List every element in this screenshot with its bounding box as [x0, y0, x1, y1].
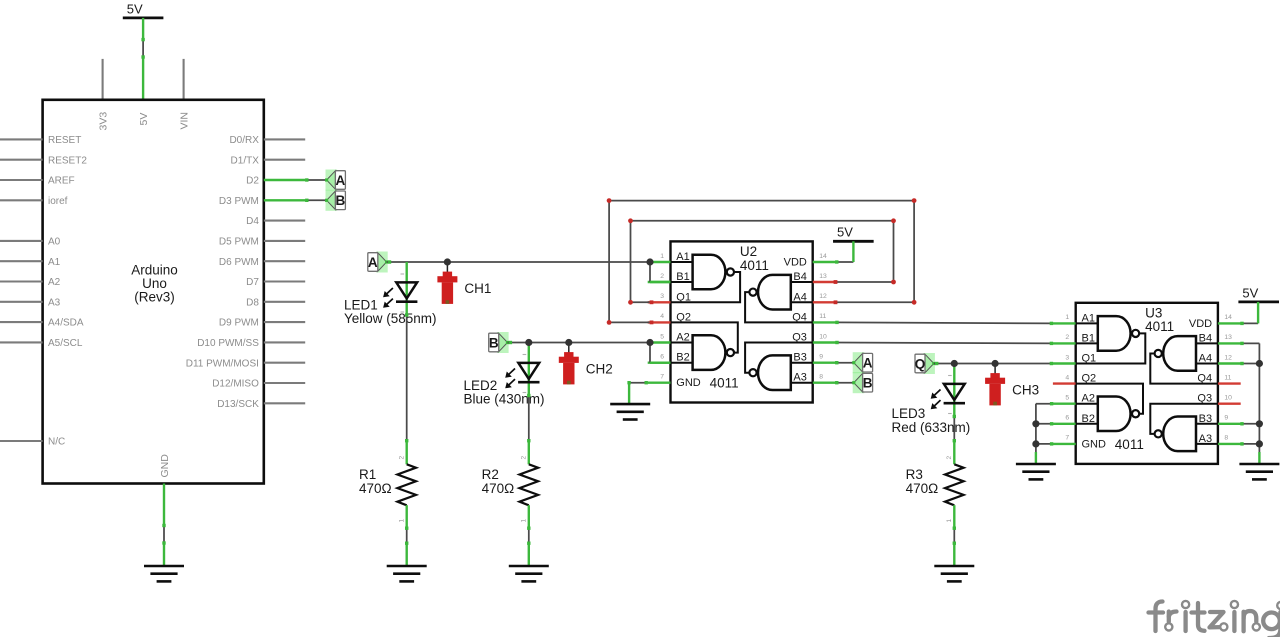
- Arduino pin RESET: [0, 138, 43, 140]
- svg-text:2: 2: [660, 273, 664, 280]
- svg-text:D2: D2: [246, 176, 259, 187]
- Arduino pin D6 PWM: [264, 260, 305, 262]
- Arduino pin D7: [264, 280, 305, 282]
- U3 pin 1 (A1): [1053, 322, 1076, 324]
- ground symbol (R2): [509, 565, 549, 568]
- svg-text:A4/SDA: A4/SDA: [48, 318, 84, 329]
- U3 pin 11 (Q4): [1218, 382, 1241, 384]
- Arduino 5V pin: [142, 58, 144, 99]
- svg-text:12: 12: [819, 293, 827, 300]
- svg-text:12: 12: [1224, 354, 1232, 361]
- svg-text:N/C: N/C: [48, 437, 65, 448]
- svg-text:A5/SCL: A5/SCL: [48, 338, 83, 349]
- U3 pin 5 (A2): [1053, 403, 1076, 405]
- net flag A (to U2 gate 1): [376, 252, 388, 273]
- power symbol 5V (U2 VDD): [833, 240, 874, 243]
- power symbol 5V (U3 VDD): [1238, 300, 1279, 303]
- U2 NAND gate 4 (top right): [791, 281, 813, 283]
- svg-text:4011: 4011: [1145, 319, 1174, 334]
- U3 NAND gate 3 (bottom right): [1196, 423, 1218, 425]
- svg-text:D7: D7: [246, 277, 259, 288]
- wire net B to U2 pin 5: [508, 342, 648, 344]
- Arduino pin D8: [264, 301, 305, 303]
- resistor R3 470: [953, 442, 955, 464]
- svg-text:1: 1: [521, 519, 528, 523]
- U2 pin 4 (Q2): [648, 321, 671, 323]
- wire R3 to ground: [953, 527, 955, 545]
- svg-text:D5 PWM: D5 PWM: [219, 237, 259, 248]
- net flag B (to U2 gate 2): [497, 332, 509, 353]
- svg-text:4011: 4011: [740, 258, 769, 273]
- ground symbol (R1): [387, 565, 427, 568]
- net flag B (from D3): [326, 190, 338, 211]
- U2 GND wire to ground: [629, 382, 648, 384]
- U2 pin 2 (B1): [648, 281, 671, 283]
- U2 pin 1 (A1): [648, 261, 671, 263]
- wire R1 to ground: [406, 527, 408, 545]
- svg-text:3: 3: [1065, 354, 1069, 361]
- svg-text:470Ω: 470Ω: [906, 481, 939, 496]
- svg-text:470Ω: 470Ω: [359, 481, 392, 496]
- U2 pin 3 (Q1): [648, 301, 671, 303]
- U3 pin 13 (B4): [1218, 342, 1241, 344]
- U2 pin 10 (Q3): [813, 341, 836, 343]
- power symbol 5V (Arduino supply): [123, 16, 164, 19]
- svg-text:13: 13: [819, 273, 827, 280]
- svg-text:5V: 5V: [837, 225, 853, 240]
- svg-text:Red (633nm): Red (633nm): [892, 420, 971, 435]
- Arduino pin A5/SCL: [0, 341, 43, 343]
- ground symbol (U2): [610, 403, 650, 406]
- svg-text:D8: D8: [246, 297, 259, 308]
- svg-text:CH2: CH2: [586, 362, 613, 377]
- svg-text:A1: A1: [48, 257, 61, 268]
- U2 pin 11 (Q4): [813, 321, 836, 323]
- wire U3 B4/A4/B3/A3 to ground: [1241, 342, 1260, 344]
- wire U2 VDD to 5V: [836, 261, 854, 263]
- wire LED2 to R2: [528, 394, 530, 442]
- Arduino pin N/C: [0, 440, 43, 442]
- svg-text:D13/SCK: D13/SCK: [217, 399, 259, 410]
- U3 pin 10 (Q3): [1218, 403, 1241, 405]
- LED3 red: [953, 364, 955, 416]
- oscilloscope probe CH2: [568, 343, 570, 353]
- svg-text:R2: R2: [482, 467, 499, 482]
- U2 NAND gate 3 (bottom right): [791, 362, 813, 364]
- svg-text:4011: 4011: [710, 376, 739, 391]
- svg-text:2: 2: [1065, 334, 1069, 341]
- wire 5V supply to Arduino 5V pin: [142, 18, 144, 40]
- Arduino pin D13/SCK: [264, 402, 305, 404]
- svg-text:D10 PWM/SS: D10 PWM/SS: [197, 338, 259, 349]
- svg-text:8: 8: [819, 374, 823, 381]
- svg-text:Q: Q: [915, 356, 926, 371]
- U3 pin 4 (Q2): [1053, 382, 1076, 384]
- svg-text:4: 4: [660, 313, 664, 320]
- Arduino pin A4/SDA: [0, 321, 43, 323]
- U3 NAND gate 2: [1076, 403, 1098, 405]
- svg-text:R1: R1: [359, 467, 376, 482]
- U2 pin 12 (A4): [813, 301, 836, 303]
- svg-text:D1/TX: D1/TX: [231, 155, 260, 166]
- svg-text:D9 PWM: D9 PWM: [219, 318, 259, 329]
- svg-text:D12/MISO: D12/MISO: [212, 379, 259, 390]
- net flag B (from U2 A3): [836, 382, 854, 384]
- U3 pin 14 (VDD): [1218, 322, 1241, 324]
- svg-text:CH1: CH1: [464, 281, 491, 296]
- U3 pin 12 (A4): [1218, 362, 1241, 364]
- svg-text:10: 10: [1224, 395, 1232, 402]
- svg-text:1: 1: [399, 519, 406, 523]
- LED1 yellow: [406, 262, 408, 314]
- fritzing watermark: [1156, 602, 1163, 632]
- svg-text:5V: 5V: [1242, 285, 1258, 300]
- svg-text:9: 9: [1224, 415, 1228, 422]
- svg-text:5: 5: [660, 333, 664, 340]
- Arduino pin D10 PWM/SS: [264, 341, 305, 343]
- svg-text:GND: GND: [159, 454, 171, 478]
- wire U2 Q4 to U3 A1: [836, 322, 1053, 323]
- svg-text:B: B: [489, 335, 499, 350]
- svg-text:4011: 4011: [1115, 437, 1144, 452]
- svg-text:GND: GND: [676, 377, 701, 389]
- wire U3 A2/B2/GND to ground: [1036, 403, 1053, 405]
- U3 pin 2 (B1): [1053, 342, 1076, 344]
- Arduino pin D9 PWM: [264, 321, 305, 323]
- U2 pin 7 (GND): [648, 382, 671, 384]
- svg-text:7: 7: [660, 374, 664, 381]
- svg-text:D0/RX: D0/RX: [229, 135, 259, 146]
- svg-text:A: A: [863, 356, 873, 371]
- U3 NAND gate 1: [1076, 322, 1098, 324]
- svg-text:3: 3: [660, 293, 664, 300]
- svg-text:VDD: VDD: [1189, 318, 1212, 330]
- svg-text:D6 PWM: D6 PWM: [219, 257, 259, 268]
- svg-text:5V: 5V: [127, 1, 143, 16]
- svg-text:A2: A2: [48, 277, 61, 288]
- wire net Q to U3 pin 3: [934, 363, 1053, 365]
- svg-text:7: 7: [1065, 435, 1069, 442]
- svg-text:13: 13: [1224, 334, 1232, 341]
- ground symbol (U3 left): [1016, 463, 1056, 466]
- Arduino pin D2: [264, 179, 305, 181]
- Arduino Uno U1 body: [43, 100, 264, 484]
- svg-text:D4: D4: [246, 216, 259, 227]
- svg-text:4: 4: [1065, 374, 1069, 381]
- Arduino pin RESET2: [0, 159, 43, 161]
- svg-text:VDD: VDD: [784, 257, 807, 269]
- svg-text:5: 5: [1065, 395, 1069, 402]
- svg-text:B: B: [336, 193, 346, 208]
- LED2 blue: [528, 343, 530, 395]
- U3 pin 9 (B3): [1218, 423, 1241, 425]
- svg-text:A: A: [336, 173, 346, 188]
- U2 pin 14 (VDD): [813, 261, 836, 263]
- resistor R1 470: [406, 442, 408, 464]
- svg-text:AREF: AREF: [48, 176, 75, 187]
- wire net B to U2 pin 6 (B2): [649, 343, 651, 363]
- svg-text:6: 6: [1065, 415, 1069, 422]
- wire R2 to ground: [528, 527, 530, 545]
- svg-text:RESET2: RESET2: [48, 155, 87, 166]
- wire Arduino GND to ground: [163, 524, 165, 545]
- svg-text:B: B: [863, 376, 873, 391]
- wire feedback Q1 to B4 (inner loop): [631, 220, 894, 222]
- net flag Q: [923, 353, 935, 374]
- svg-text:D11 PWM/MOSI: D11 PWM/MOSI: [186, 358, 259, 369]
- svg-text:CH3: CH3: [1012, 383, 1039, 398]
- wire net A to U2 pin 1: [387, 261, 648, 263]
- junction dots (top loop): [607, 198, 612, 203]
- Arduino pin A1: [0, 260, 43, 262]
- svg-text:R3: R3: [906, 467, 923, 482]
- svg-text:3V3: 3V3: [98, 112, 110, 131]
- Arduino pin A3: [0, 301, 43, 303]
- Arduino pin D3 PWM: [264, 199, 305, 201]
- svg-text:2: 2: [399, 456, 406, 460]
- svg-text:Yellow (585nm): Yellow (585nm): [344, 311, 437, 326]
- svg-text:2: 2: [521, 456, 528, 460]
- Arduino pin AREF: [0, 179, 43, 181]
- svg-text:A3: A3: [48, 297, 61, 308]
- net flag A (from U2 B3): [836, 362, 854, 364]
- svg-text:2: 2: [946, 456, 953, 460]
- Arduino pin D0/RX: [264, 138, 305, 140]
- svg-text:470Ω: 470Ω: [482, 481, 515, 496]
- U2 pin 9 (B3): [813, 362, 836, 364]
- ground symbol (Arduino): [144, 565, 184, 568]
- U2 pin 5 (A2): [648, 341, 671, 343]
- wire U2 Q3 to U3 B1: [836, 342, 1053, 345]
- IC U2 4011 body: [671, 241, 813, 402]
- U2 NAND gate 1: [671, 261, 693, 263]
- svg-text:6: 6: [660, 354, 664, 361]
- svg-text:8: 8: [1224, 435, 1228, 442]
- svg-text:(Rev3): (Rev3): [134, 290, 175, 305]
- resistor R2 470: [528, 442, 530, 464]
- Arduino pin D12/MISO: [264, 382, 305, 384]
- wire LED1 to R1: [406, 314, 408, 442]
- svg-text:14: 14: [819, 253, 827, 260]
- U2 pin 6 (B2): [648, 362, 671, 364]
- svg-text:GND: GND: [1082, 438, 1107, 450]
- svg-text:LED1: LED1: [344, 297, 378, 312]
- wire LED3 to R3: [953, 415, 955, 442]
- Arduino pin D5 PWM: [264, 240, 305, 242]
- svg-text:1: 1: [660, 253, 664, 260]
- junction dots (inner loop): [628, 218, 633, 223]
- wire D3 to net flag B: [305, 199, 326, 201]
- svg-text:9: 9: [819, 354, 823, 361]
- svg-text:LED2: LED2: [464, 378, 498, 393]
- Arduino pin A2: [0, 280, 43, 282]
- wire feedback Q2 to A4 (top loop): [609, 200, 914, 202]
- Arduino pin D11 PWM/MOSI: [264, 362, 305, 364]
- Arduino VIN pin: [183, 59, 185, 100]
- svg-text:A: A: [368, 255, 378, 270]
- svg-text:Blue (430nm): Blue (430nm): [464, 392, 545, 407]
- Arduino pin D1/TX: [264, 159, 305, 161]
- U3 NAND gate 4 (top right): [1196, 342, 1218, 344]
- U3 pin 8 (A3): [1218, 443, 1241, 445]
- Arduino pin D4: [264, 220, 305, 222]
- U3 pin 3 (Q1): [1053, 362, 1076, 364]
- svg-text:11: 11: [819, 313, 826, 320]
- svg-text:14: 14: [1224, 314, 1232, 321]
- U2 pin 8 (A3): [813, 382, 836, 384]
- svg-text:5V: 5V: [138, 113, 150, 126]
- Arduino GND pin: [163, 484, 165, 525]
- svg-text:1: 1: [946, 519, 953, 523]
- svg-text:1: 1: [1065, 314, 1069, 321]
- U3 pin 7 (GND): [1053, 443, 1076, 445]
- ground symbol (R3): [934, 565, 974, 568]
- U2 pin 13 (B4): [813, 281, 836, 283]
- svg-text:ioref: ioref: [48, 196, 68, 207]
- Arduino 3V3 pin: [102, 59, 104, 100]
- svg-text:D3 PWM: D3 PWM: [219, 196, 259, 207]
- svg-text:11: 11: [1224, 374, 1231, 381]
- svg-text:VIN: VIN: [179, 112, 191, 130]
- svg-text:10: 10: [819, 333, 827, 340]
- svg-text:LED3: LED3: [892, 406, 926, 421]
- ground symbol (U3 right): [1239, 463, 1279, 466]
- wire net A to U2 pin 2 (B1): [649, 262, 651, 282]
- wire D2 to net flag A: [305, 179, 326, 181]
- oscilloscope probe CH3: [994, 364, 996, 374]
- IC U3 4011 body: [1076, 303, 1218, 464]
- Arduino pin A0: [0, 240, 43, 242]
- net flag A (from D2): [326, 170, 338, 191]
- oscilloscope probe CH1: [446, 262, 448, 272]
- U2 NAND gate 2: [671, 342, 693, 344]
- svg-text:A0: A0: [48, 237, 61, 248]
- U3 pin 6 (B2): [1053, 423, 1076, 425]
- wire U3 VDD to 5V: [1241, 322, 1258, 324]
- svg-text:RESET: RESET: [48, 135, 81, 146]
- Arduino pin ioref: [0, 199, 43, 201]
